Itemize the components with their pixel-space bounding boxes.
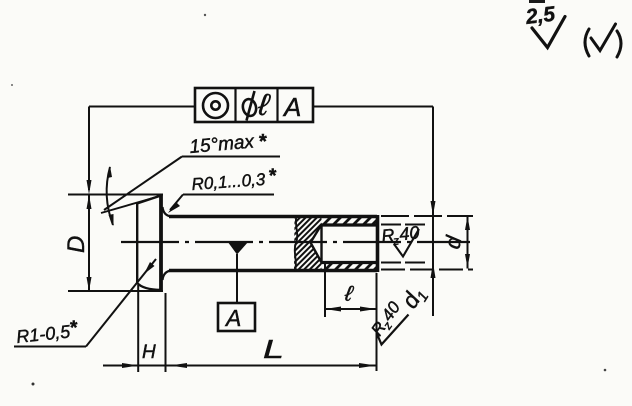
d dimension line	[467, 216, 469, 269]
svg-text:*: *	[259, 131, 267, 153]
R0,1 leader shelf	[183, 194, 274, 196]
cone edge extension line	[101, 196, 160, 213]
R1 leader arrow	[144, 262, 155, 274]
l dimension extension	[324, 263, 326, 317]
angle arc bottom arrow	[109, 214, 114, 226]
scan speck 3	[204, 14, 206, 16]
hole top line	[322, 223, 378, 226]
d outer bottom extension	[381, 269, 473, 271]
head right face	[159, 195, 163, 290]
H left outside arrow	[122, 363, 139, 368]
Rz40 hole check symbol	[394, 229, 419, 257]
d bottom arrow	[465, 254, 470, 268]
D dimension bottom arrow	[87, 277, 92, 291]
svg-text:A: A	[224, 305, 241, 331]
leader right arrow	[431, 201, 436, 216]
H right / L left arrow	[170, 363, 187, 368]
feature control frame box	[195, 88, 313, 122]
hole bottom line	[322, 261, 378, 264]
section break line	[295, 216, 297, 272]
tolerance frame leader (horizontal)	[89, 106, 433, 108]
hatching bottom strip	[322, 260, 384, 273]
svg-text:D: D	[63, 236, 90, 253]
leader left vertical to D dimension	[88, 107, 90, 191]
centerline	[121, 241, 470, 243]
l left arrow	[325, 307, 341, 312]
scan speck 4	[11, 84, 13, 86]
frame divider 2	[276, 88, 278, 122]
scan speck 1	[32, 383, 35, 386]
head left face	[136, 203, 138, 284]
d1 hole top extension	[381, 224, 429, 226]
svg-text:*: *	[70, 318, 78, 339]
shaft bottom fillet	[163, 271, 172, 281]
svg-text:A: A	[282, 92, 301, 122]
D dimension top arrow	[87, 195, 92, 210]
leader left arrow	[87, 180, 92, 195]
datum stem	[236, 254, 238, 303]
l dimension line	[325, 308, 376, 310]
L right extension line	[376, 273, 378, 371]
angle arc top arrow	[108, 166, 113, 178]
d top arrow	[465, 216, 470, 230]
H extension left	[137, 285, 139, 372]
R1 leader underline	[14, 346, 86, 348]
R1 leader diagonal	[86, 259, 156, 347]
15 deg leader shelf	[182, 156, 280, 158]
L dimension line	[103, 365, 376, 367]
hatching top strip	[322, 214, 383, 226]
head bottom edge	[137, 283, 161, 290]
shaft bottom line	[169, 269, 377, 272]
datum triangle	[228, 242, 249, 255]
general roughness check symbol	[532, 17, 565, 48]
D dimension line	[88, 195, 90, 292]
l right arrow	[360, 307, 376, 312]
tolerance value phi	[241, 91, 258, 121]
R0,1 leader diagonal	[170, 195, 183, 211]
svg-text:H: H	[142, 342, 156, 363]
parenthesized roughness symbol (√)	[585, 24, 621, 57]
frame divider 1	[234, 88, 236, 122]
svg-text:2,5: 2,5	[524, 3, 557, 30]
shaft top fillet	[163, 207, 172, 217]
R0,1 leader arrow	[168, 202, 180, 213]
d1 label	[396, 282, 432, 315]
scan smudge top edge	[529, 0, 545, 3]
concentricity symbol outer circle	[203, 93, 228, 118]
d1 bottom arrow	[431, 263, 436, 279]
d1 hole bottom extension	[381, 262, 429, 264]
Rz40 hole roughness text	[380, 222, 420, 249]
d outer top extension	[381, 215, 473, 217]
Rz40 end face roughness symbol rotated	[377, 315, 409, 345]
leader right vertical to d1 dimension	[432, 107, 434, 317]
D dimension bottom extension	[68, 290, 163, 292]
angle dimension arc	[107, 167, 113, 225]
svg-text:*: *	[269, 166, 277, 187]
shaft top line	[169, 215, 377, 218]
L right arrow	[359, 363, 376, 368]
hole left wall	[320, 225, 322, 263]
D dimension top extension	[68, 194, 163, 196]
head top edge	[137, 196, 161, 204]
H extension right	[165, 293, 167, 372]
shaft end face	[376, 215, 380, 272]
scan speck 2	[604, 369, 607, 372]
datum box	[218, 303, 255, 331]
concentricity symbol inner circle	[211, 101, 219, 109]
drill cone	[311, 225, 322, 263]
svg-text:L: L	[263, 334, 284, 364]
hatching left block	[293, 189, 323, 297]
15 deg leader diagonal	[104, 157, 182, 211]
